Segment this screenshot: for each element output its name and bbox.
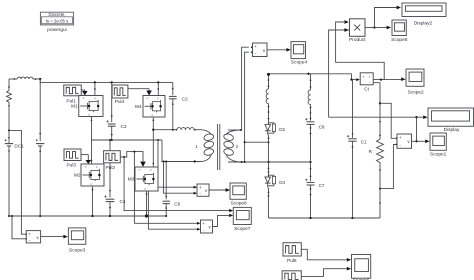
wire Pul1 to M1 gate [81, 90, 85, 91]
label Pul1 [66, 98, 76, 104]
svg-text:M1: M1 [71, 103, 78, 109]
label Scope2 [407, 90, 424, 96]
wire v3 minus from ground rail [11, 215, 25, 239]
wire M4 source to M3 drain [152, 117, 154, 167]
label Scope8 [230, 201, 247, 207]
wire series inductor to primary top [195, 129, 201, 131]
label powergui [47, 27, 66, 33]
wire rectifier top rail [267, 73, 352, 78]
svg-text:C7: C7 [319, 183, 325, 188]
pulse generator Pul5 [283, 243, 301, 256]
svg-text:Scope1: Scope1 [430, 152, 447, 158]
label Scope5 [391, 37, 408, 43]
wire v4 minus vertical [245, 52, 249, 162]
svg-text:C2: C2 [182, 96, 188, 101]
label Scope4 [291, 59, 308, 65]
wire leg B midpoint to series inductor [153, 129, 177, 131]
label C8 [319, 125, 325, 130]
voltage measurement v1 [396, 134, 412, 148]
label C1 [361, 140, 367, 145]
wire left vertical to DC source [8, 104, 10, 142]
capacitor C8 [305, 118, 314, 124]
wire tap to v7 plus [133, 151, 200, 225]
svg-text:Display2: Display2 [414, 20, 433, 26]
label M4 [135, 104, 142, 110]
powergui block [40, 12, 73, 25]
wire C7 to bottom rail [310, 185, 312, 218]
inductor L input filter [14, 77, 37, 80]
label C7 [319, 183, 325, 188]
label D2 [279, 127, 285, 132]
wire v4 plus vertical [242, 47, 249, 130]
svg-text:ts = 2e-05 s: ts = 2e-05 s [46, 18, 69, 23]
wire v7 output to Scope7 [213, 214, 234, 227]
wire C4 branch upper (passes under Pul2) [109, 139, 111, 197]
gate arrow M1 [82, 91, 88, 96]
svg-text:Scope8: Scope8 [230, 201, 247, 207]
display Display [428, 108, 474, 126]
voltage measurement v4 (transformer) [251, 43, 267, 57]
label Product [349, 37, 366, 43]
svg-text:powergui: powergui [47, 27, 66, 33]
svg-text:D2: D2 [279, 127, 285, 132]
wire Ct output to Scope2 [373, 77, 405, 81]
svg-text:C3: C3 [121, 124, 127, 129]
transformer core [218, 124, 220, 170]
diode D4 [265, 174, 276, 187]
svg-text:Scope7: Scope7 [234, 226, 251, 232]
display Display2 [402, 3, 446, 17]
scope Scope6 [352, 255, 371, 279]
wire R bottom to rail [379, 166, 381, 218]
svg-text:Discrete,: Discrete, [49, 12, 66, 17]
label R [369, 149, 373, 154]
wire tap to v1 plus [380, 103, 396, 138]
capacitor C1 [347, 135, 357, 141]
wire rectifier bottom rail [269, 217, 381, 219]
capacitor C4 [104, 195, 114, 201]
wire right branch upper [310, 74, 312, 90]
wire v1 out junction to Display riser [415, 117, 417, 142]
label M3 [128, 177, 135, 183]
transformer primary winding 1 [201, 130, 215, 162]
wire C6 branch upper [165, 161, 167, 200]
pulse generator Pul2 [104, 151, 121, 163]
wire C3 branch lower [111, 126, 113, 141]
pulse generator Pul4 [112, 85, 128, 98]
wire tap to v7 minus [148, 191, 200, 231]
label winding 1 [195, 144, 198, 149]
svg-text:C6: C6 [174, 201, 180, 206]
pulse generator Pul1 [64, 85, 82, 96]
label Scope6 [353, 277, 370, 280]
label C4 [120, 199, 126, 204]
svg-text:C4: C4 [120, 199, 126, 204]
wire leg A to transformer primary bottom [162, 140, 201, 163]
scope Scope1 [430, 133, 446, 150]
wire Pul4 to M4 gate [128, 89, 149, 91]
inductor L rectifier right branch [308, 90, 310, 105]
wire top DC rail [40, 79, 173, 84]
wire tap to v8 minus [163, 161, 198, 195]
wire right branch to C8 [310, 105, 312, 121]
resistor R load (zigzag) [377, 139, 384, 166]
scope Scope8 [230, 183, 246, 199]
DC voltage source DC1 (battery) [5, 137, 14, 152]
svg-text:Display: Display [444, 127, 460, 133]
wire C3 branch upper [111, 82, 113, 122]
wire M2 source to ground rail [92, 186, 94, 216]
label DC1 [14, 143, 24, 148]
label Pul3 [66, 163, 76, 169]
capacitor C7 [305, 179, 314, 185]
label Scope3 [69, 247, 86, 253]
svg-text:Pul3: Pul3 [66, 163, 76, 169]
wire Ct output to Product input 1 [336, 20, 385, 79]
svg-text:Scope2: Scope2 [407, 90, 424, 96]
svg-text:C1: C1 [361, 140, 367, 145]
capacitor Cin input (battery style) [36, 139, 45, 146]
label winding 2 [236, 144, 239, 149]
svg-text:Ct: Ct [364, 87, 369, 92]
wire v8 output to Scope8 [209, 188, 230, 192]
wire C4 branch lower [109, 202, 111, 216]
mosfet M4 [143, 96, 165, 118]
wire D2 to mid node [268, 135, 270, 142]
label D4 [279, 180, 285, 185]
wire leg A midpoint node [92, 139, 163, 141]
wire left branch mid to D4 [268, 142, 270, 174]
wire Ct lower output to load R [373, 83, 381, 139]
svg-text:C8: C8 [319, 125, 325, 130]
resistor R input (zigzag) [7, 91, 12, 107]
wire secondary top to rectifier mid jog [244, 141, 270, 143]
svg-text:Pul4: Pul4 [115, 99, 125, 105]
label M2 [74, 172, 81, 178]
wire M4 drain [157, 82, 159, 95]
mosfet M2 [81, 164, 104, 186]
voltage measurement v8 [197, 184, 209, 196]
wire M1 drain [94, 82, 96, 95]
label C6 [174, 201, 180, 206]
pulse generator Pul3 [64, 149, 81, 161]
scope Scope7 [233, 207, 251, 224]
mosfet M3 [135, 167, 158, 191]
wire DC source bottom to ground rail [8, 148, 10, 216]
inductor L series primary [177, 128, 196, 131]
scope Scope5 [392, 20, 406, 36]
product block Product [350, 19, 366, 37]
wire Pul2 to M3 gate [120, 152, 143, 162]
svg-text:M4: M4 [135, 104, 142, 110]
wire tap gate signal to Scope7 [124, 157, 233, 212]
wire Pul3 to M2 gate [81, 155, 88, 161]
svg-text:DC1: DC1 [14, 143, 24, 148]
label Scope7 [234, 226, 251, 232]
wire C6 branch lower [165, 204, 167, 216]
wire tap to v1 minus [380, 145, 396, 189]
pulse generator Pul6 [282, 271, 301, 280]
inductor L rectifier left branch [266, 89, 268, 104]
wire DC bus to Product input 2 [329, 28, 350, 117]
wire v1 output to Scope1 [412, 139, 430, 143]
wire Product out to Scope5 and Display2 [365, 6, 401, 30]
wire left branch upper [268, 78, 270, 89]
wire v4 output to Scope4 [267, 48, 291, 52]
wire M1 source to M2 drain [91, 117, 93, 165]
voltage measurement v3 [25, 231, 40, 243]
wire right branch mid to C7 [310, 162, 312, 181]
scope Scope4 [291, 42, 306, 59]
diode D2 [265, 121, 276, 135]
svg-text:Pul5: Pul5 [287, 258, 297, 264]
wire rail to Ct input [350, 74, 359, 81]
wire C2 branch upper [172, 82, 174, 95]
label Pul4 [115, 99, 125, 105]
svg-text:Pul2: Pul2 [105, 165, 115, 171]
voltage measurement v7 [201, 220, 213, 233]
wire C1 branch upper [352, 80, 354, 138]
capacitor C6 [163, 201, 170, 203]
label Ct [364, 87, 369, 92]
svg-text:Pul1: Pul1 [66, 98, 76, 104]
label C3 [121, 124, 127, 129]
capacitor C2 [169, 96, 177, 98]
svg-text:Scope5: Scope5 [391, 37, 408, 43]
wire left branch to D2 [268, 104, 270, 122]
svg-text:Scope4: Scope4 [291, 59, 308, 65]
transformer secondary winding 2 [223, 130, 241, 162]
wire tap to v8 plus [158, 140, 197, 189]
wire C8 to mid [310, 124, 312, 162]
label Display [444, 127, 460, 133]
gate arrow M2 [86, 160, 92, 164]
current measurement Ct [360, 73, 373, 85]
wire left vertical DC source branch upper [8, 79, 10, 91]
label M1 [71, 103, 78, 109]
gate arrow M4 [146, 91, 152, 96]
svg-text:M2: M2 [74, 172, 81, 178]
scope Scope2 [406, 69, 424, 86]
wire D4 to bottom rail [268, 188, 270, 218]
wire primary ground rail [8, 214, 167, 217]
wire secondary top lead [228, 129, 242, 131]
wire Pul6 to Scope6 [301, 267, 351, 277]
wire DC plus bus to Display [329, 115, 428, 119]
label Display2 [414, 20, 433, 26]
wire C2 branch lower [172, 99, 174, 130]
wire secondary bottom lead [228, 161, 312, 163]
svg-text:Scope3: Scope3 [69, 247, 86, 253]
capacitor C3 [106, 120, 115, 126]
label C2 [182, 96, 188, 101]
svg-text:Product: Product [349, 37, 366, 43]
label Scope1 [430, 152, 447, 158]
label Pul5 [287, 258, 297, 264]
svg-text:D4: D4 [279, 180, 285, 185]
wire input top from DC source to bridge rail [9, 78, 40, 80]
scope Scope3 [68, 228, 85, 244]
gate arrow M3 [140, 162, 146, 167]
label Pul2 [105, 165, 115, 171]
wire Pul5 to Scope6 [301, 249, 351, 261]
wire tap to voltage measurement v3 plus [9, 130, 25, 234]
svg-text:M3: M3 [128, 177, 135, 183]
wire input cap branch bottom [39, 146, 41, 217]
wire C1 branch lower [352, 141, 354, 218]
wire M3 source to ground rail [146, 191, 148, 216]
wire input cap branch top [39, 78, 41, 141]
mosfet M1 [79, 96, 103, 117]
wire v3 output to Scope3 [41, 235, 68, 239]
